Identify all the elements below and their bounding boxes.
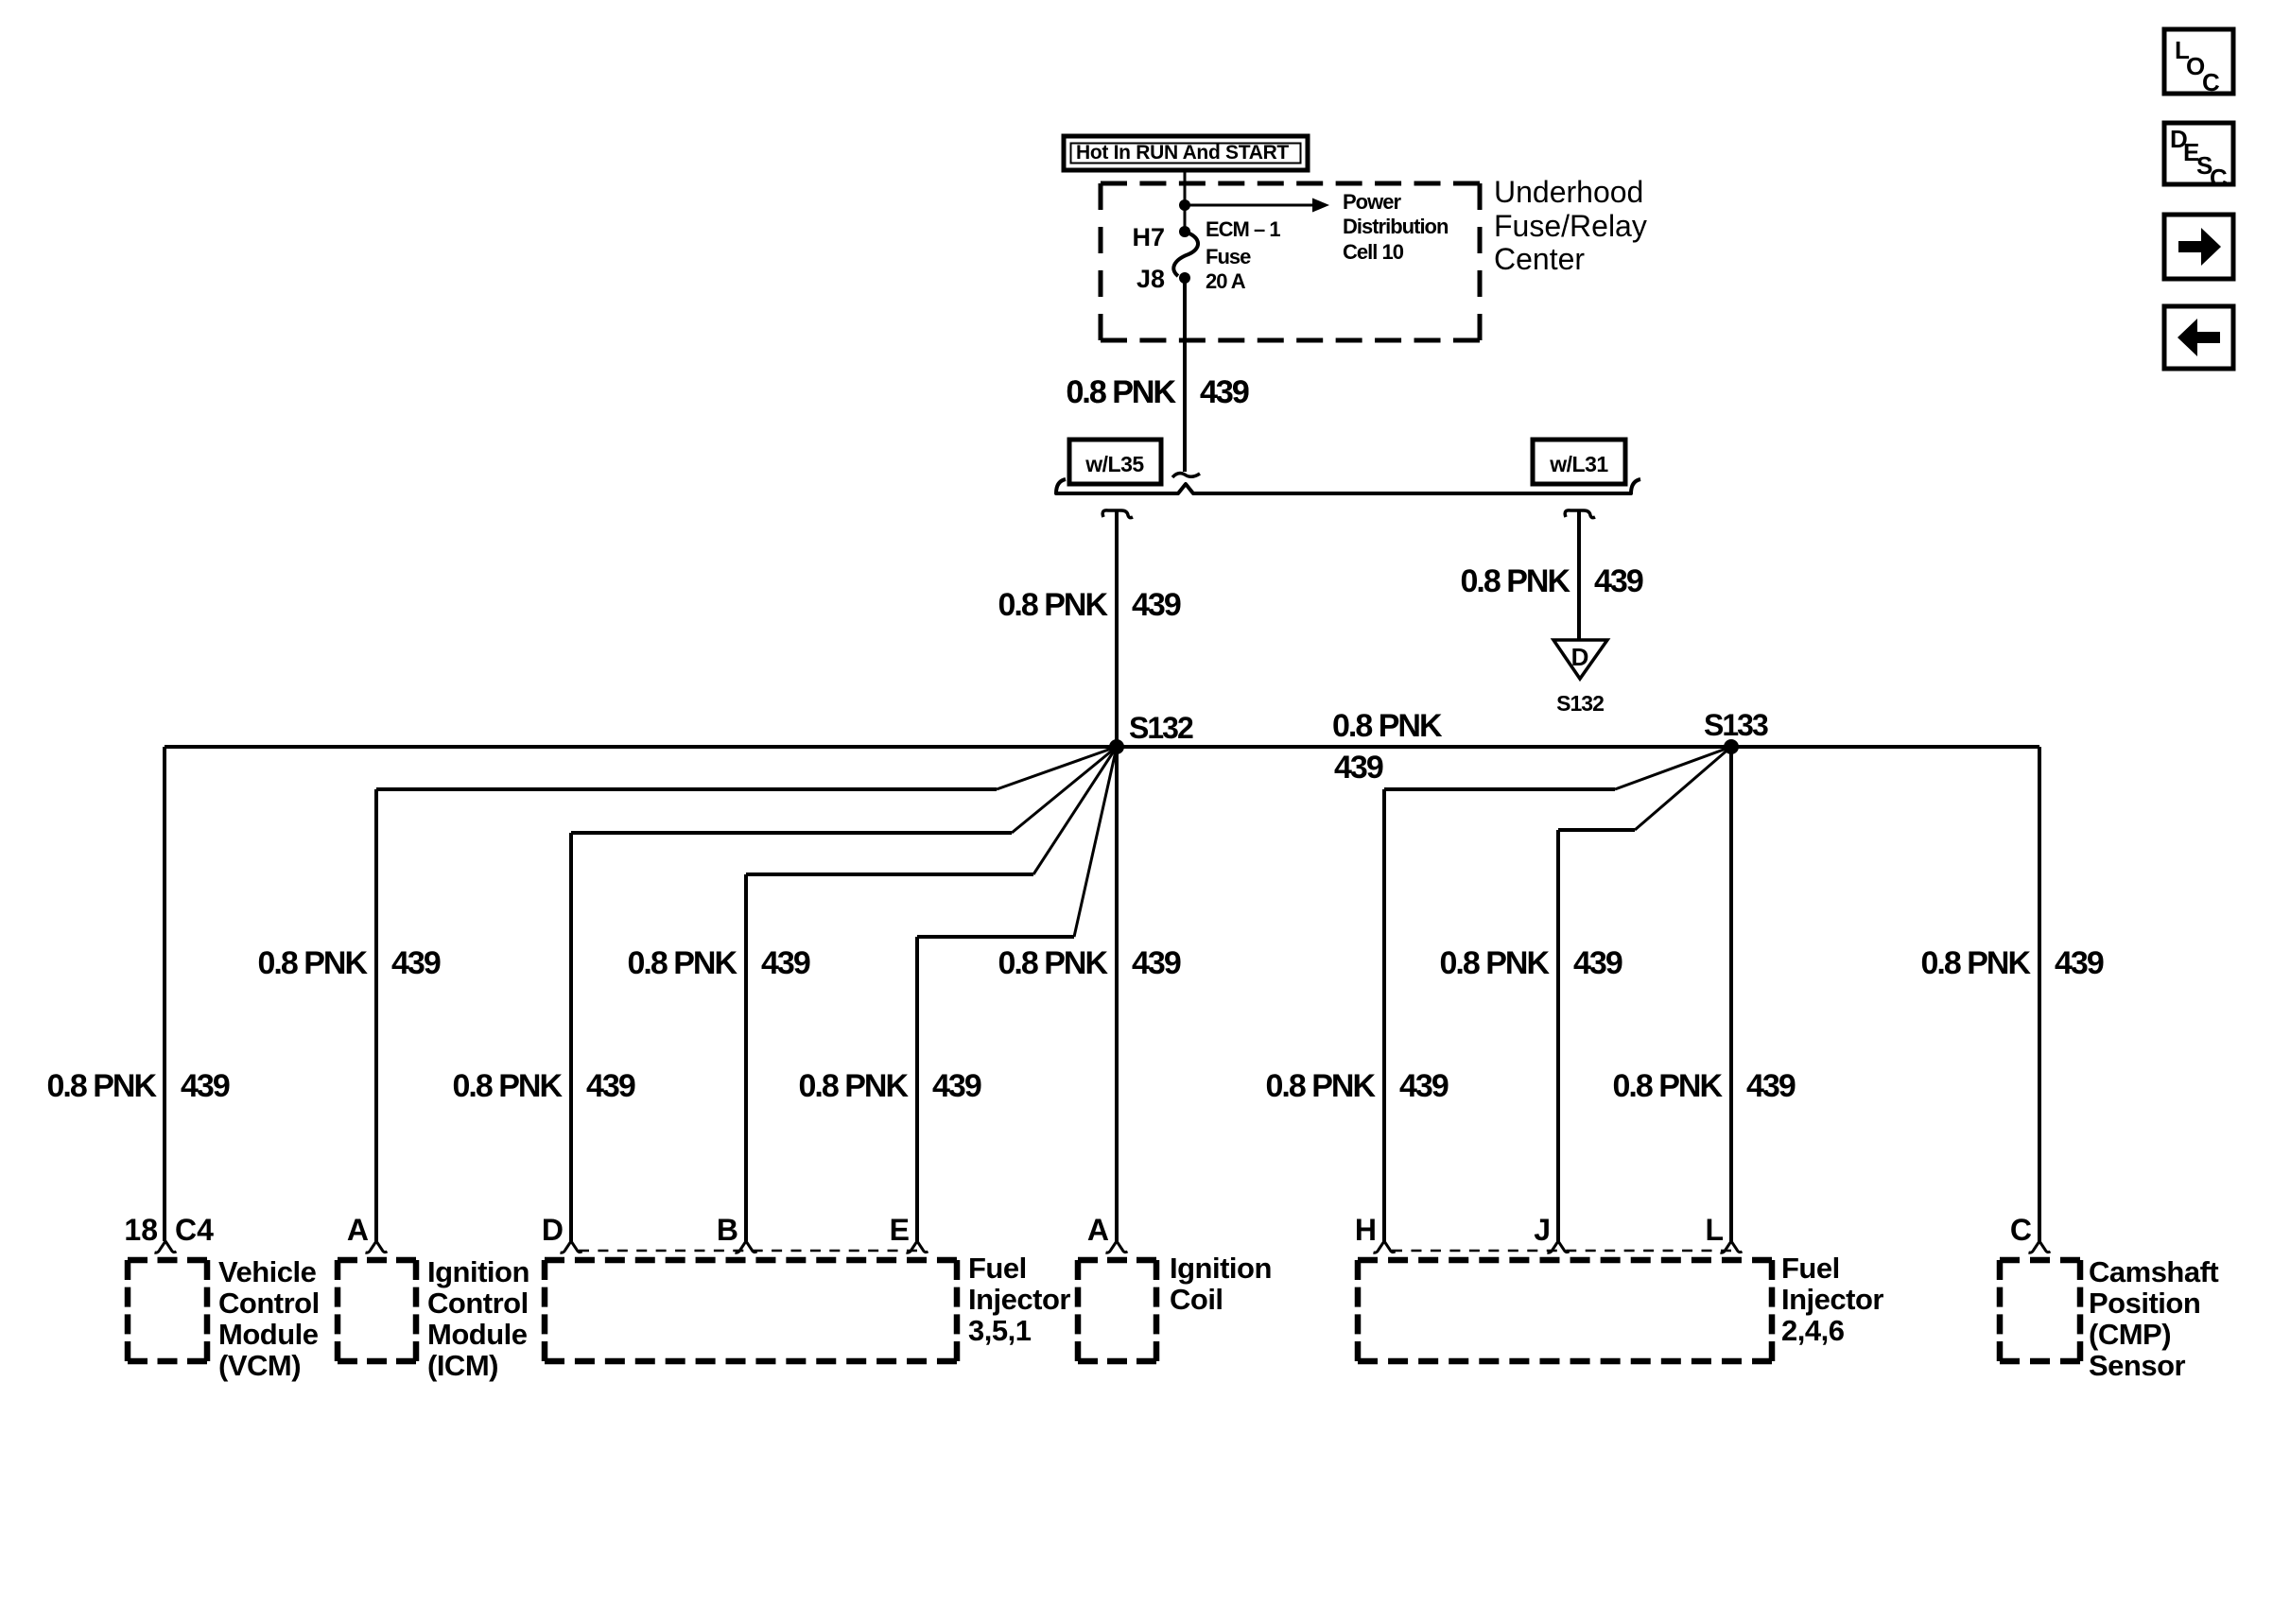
svg-text:0.8 PNK: 0.8 PNK	[1266, 1068, 1377, 1104]
svg-text:439: 439	[1132, 587, 1181, 623]
svg-text:0.8 PNK: 0.8 PNK	[47, 1068, 158, 1104]
svg-text:C: C	[2010, 1213, 2032, 1247]
svg-text:Control: Control	[218, 1287, 320, 1320]
svg-text:439: 439	[2055, 945, 2104, 981]
svg-text:Module: Module	[218, 1318, 319, 1351]
svg-text:439: 439	[181, 1068, 230, 1104]
svg-text:Injector: Injector	[968, 1283, 1070, 1316]
svg-text:Fuel: Fuel	[1781, 1252, 1840, 1285]
svg-text:D: D	[542, 1213, 564, 1247]
svg-text:0.8 PNK: 0.8 PNK	[1067, 374, 1177, 410]
svg-text:(ICM): (ICM)	[427, 1349, 498, 1382]
svg-text:439: 439	[391, 945, 441, 981]
svg-text:B: B	[717, 1213, 738, 1247]
svg-text:3,5,1: 3,5,1	[968, 1314, 1032, 1347]
svg-text:C4: C4	[175, 1213, 214, 1247]
svg-text:20 A: 20 A	[1206, 269, 1246, 293]
svg-text:0.8 PNK: 0.8 PNK	[1440, 945, 1551, 981]
svg-text:Camshaft: Camshaft	[2089, 1255, 2218, 1288]
svg-text:Vehicle: Vehicle	[218, 1255, 317, 1288]
svg-text:2,4,6: 2,4,6	[1781, 1314, 1845, 1347]
svg-text:0.8 PNK: 0.8 PNK	[258, 945, 369, 981]
svg-text:Position: Position	[2089, 1287, 2200, 1320]
svg-text:439: 439	[1334, 750, 1383, 786]
svg-text:w/L35: w/L35	[1084, 452, 1144, 476]
svg-text:Power: Power	[1343, 190, 1401, 214]
svg-text:Fuse: Fuse	[1206, 245, 1251, 268]
svg-text:0.8 PNK: 0.8 PNK	[998, 945, 1109, 981]
svg-text:S132: S132	[1129, 711, 1193, 745]
svg-text:C: C	[2210, 164, 2228, 192]
svg-text:Coil: Coil	[1170, 1283, 1223, 1316]
svg-text:Underhood: Underhood	[1494, 175, 1643, 209]
svg-text:E: E	[890, 1213, 910, 1247]
svg-text:Fuel: Fuel	[968, 1252, 1027, 1285]
svg-text:439: 439	[932, 1068, 981, 1104]
svg-text:0.8 PNK: 0.8 PNK	[628, 945, 738, 981]
svg-text:S133: S133	[1704, 708, 1768, 742]
svg-text:439: 439	[1399, 1068, 1449, 1104]
svg-text:439: 439	[1200, 374, 1249, 410]
svg-text:439: 439	[761, 945, 810, 981]
svg-text:Ignition: Ignition	[1170, 1252, 1272, 1285]
svg-text:H: H	[1355, 1213, 1377, 1247]
svg-text:439: 439	[1573, 945, 1622, 981]
svg-text:439: 439	[1594, 563, 1643, 599]
svg-text:0.8 PNK: 0.8 PNK	[1461, 563, 1571, 599]
svg-text:Injector: Injector	[1781, 1283, 1883, 1316]
svg-text:A: A	[347, 1213, 369, 1247]
svg-text:0.8 PNK: 0.8 PNK	[998, 587, 1109, 623]
svg-text:0.8 PNK: 0.8 PNK	[1332, 708, 1443, 744]
svg-text:0.8 PNK: 0.8 PNK	[453, 1068, 564, 1104]
svg-text:439: 439	[1132, 945, 1181, 981]
svg-text:H7: H7	[1132, 223, 1165, 251]
svg-text:(VCM): (VCM)	[218, 1349, 301, 1382]
svg-text:J8: J8	[1136, 265, 1165, 293]
svg-text:Module: Module	[427, 1318, 528, 1351]
svg-text:L: L	[1705, 1213, 1724, 1247]
svg-text:ECM – 1: ECM – 1	[1206, 217, 1280, 241]
svg-text:Cell 10: Cell 10	[1343, 240, 1404, 264]
svg-text:Distribution: Distribution	[1343, 215, 1449, 238]
svg-text:439: 439	[1746, 1068, 1796, 1104]
svg-text:S132: S132	[1556, 691, 1604, 716]
svg-text:0.8 PNK: 0.8 PNK	[1613, 1068, 1724, 1104]
svg-text:0.8 PNK: 0.8 PNK	[1921, 945, 2032, 981]
svg-text:J: J	[1534, 1213, 1551, 1247]
svg-text:Hot In RUN And START: Hot In RUN And START	[1076, 142, 1289, 164]
svg-text:A: A	[1087, 1213, 1109, 1247]
svg-text:C: C	[2202, 68, 2220, 96]
svg-text:18: 18	[124, 1213, 158, 1247]
svg-text:Ignition: Ignition	[427, 1255, 529, 1288]
svg-text:Sensor: Sensor	[2089, 1349, 2186, 1382]
svg-text:D: D	[1571, 643, 1589, 671]
svg-text:Fuse/Relay: Fuse/Relay	[1494, 209, 1647, 243]
svg-text:Center: Center	[1494, 242, 1585, 276]
svg-text:0.8 PNK: 0.8 PNK	[799, 1068, 910, 1104]
svg-text:w/L31: w/L31	[1549, 452, 1608, 476]
svg-text:439: 439	[586, 1068, 635, 1104]
svg-text:(CMP): (CMP)	[2089, 1318, 2171, 1351]
svg-text:Control: Control	[427, 1287, 529, 1320]
